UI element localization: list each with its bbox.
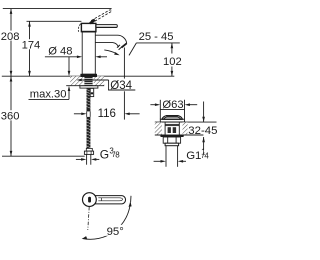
svg-text:208: 208 xyxy=(1,31,20,43)
svg-text:32-45: 32-45 xyxy=(188,125,217,137)
svg-text:25 - 45: 25 - 45 xyxy=(139,31,174,43)
svg-text:Ø34: Ø34 xyxy=(110,80,132,92)
svg-text:G: G xyxy=(100,147,109,161)
svg-text:8: 8 xyxy=(115,151,120,160)
svg-text:95°: 95° xyxy=(107,226,124,238)
svg-text:116: 116 xyxy=(98,108,116,120)
svg-text:174: 174 xyxy=(22,40,41,52)
svg-text:Ø63: Ø63 xyxy=(162,99,183,111)
svg-text:4: 4 xyxy=(204,152,209,161)
svg-text:max.30: max.30 xyxy=(30,89,67,101)
svg-text:Ø 48: Ø 48 xyxy=(48,45,72,57)
svg-text:G1: G1 xyxy=(186,150,201,162)
svg-text:102: 102 xyxy=(163,56,182,68)
svg-text:360: 360 xyxy=(1,111,20,123)
